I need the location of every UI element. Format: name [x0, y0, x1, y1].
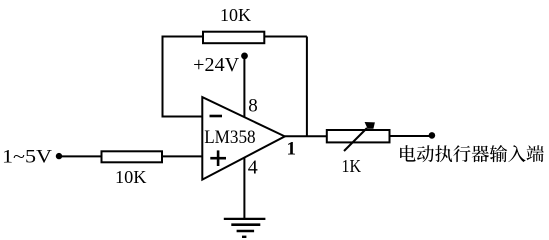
svg-text:1K: 1K: [342, 156, 362, 176]
resistor R1 10K input: [102, 151, 163, 162]
wire inverting input: [162, 116, 203, 118]
wire input to op-amp: [162, 155, 203, 157]
wire output to terminal: [390, 135, 430, 137]
wire feedback top horizontal left: [162, 36, 203, 38]
potentiometer R3 1K body: [327, 130, 390, 142]
svg-text:1: 1: [287, 138, 297, 159]
node +24V supply dot: [241, 53, 248, 60]
node output terminal dot: [429, 132, 436, 139]
potentiometer R3 wiper arrow: [344, 122, 375, 151]
op-amp inverting input minus sign: [210, 115, 223, 118]
ground symbol: [224, 219, 266, 237]
wire input left: [59, 155, 102, 157]
svg-text:10K: 10K: [220, 5, 251, 25]
wire pin 8 supply: [243, 56, 245, 117]
svg-text:1~5V: 1~5V: [2, 147, 52, 168]
svg-text:10K: 10K: [115, 167, 147, 187]
wire output: [285, 135, 327, 137]
svg-text:4: 4: [248, 157, 258, 179]
svg-text:LM358: LM358: [204, 127, 255, 148]
wire feedback right vertical: [306, 37, 308, 137]
op-amp U1 LM358 triangle: [202, 97, 284, 180]
svg-text:+24V: +24V: [193, 54, 240, 76]
wire feedback top horizontal right: [265, 36, 307, 38]
wire feedback top-left vertical: [162, 37, 164, 117]
node input terminal dot: [56, 153, 62, 159]
svg-text:8: 8: [248, 96, 257, 117]
resistor R2 10K feedback: [203, 32, 264, 44]
label actuator input terminal (Chinese): [400, 145, 544, 162]
wire pin 4 to ground: [243, 158, 245, 219]
op-amp non-inverting input plus sign: [210, 150, 226, 166]
